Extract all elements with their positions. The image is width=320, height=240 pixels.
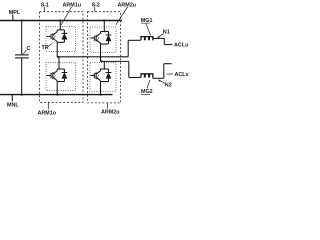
svg-text:MG1: MG1 (141, 18, 153, 24)
svg-text:ARM1o: ARM1o (38, 111, 57, 117)
svg-text:ARM1u: ARM1u (63, 3, 82, 9)
svg-text:MG2: MG2 (141, 89, 153, 95)
svg-text:MPL: MPL (9, 10, 21, 16)
svg-text:8-2: 8-2 (92, 3, 100, 9)
svg-text:TR: TR (42, 45, 49, 51)
svg-text:MNL: MNL (7, 103, 19, 109)
svg-text:ACLv: ACLv (175, 72, 189, 78)
svg-text:8-1: 8-1 (41, 3, 49, 9)
svg-text:ARM2u: ARM2u (118, 3, 137, 9)
svg-text:N2: N2 (165, 83, 172, 89)
svg-text:ACLu: ACLu (174, 42, 188, 48)
svg-text:C: C (27, 46, 31, 52)
svg-text:ARM2o: ARM2o (101, 110, 120, 116)
svg-text:N1: N1 (163, 30, 170, 36)
